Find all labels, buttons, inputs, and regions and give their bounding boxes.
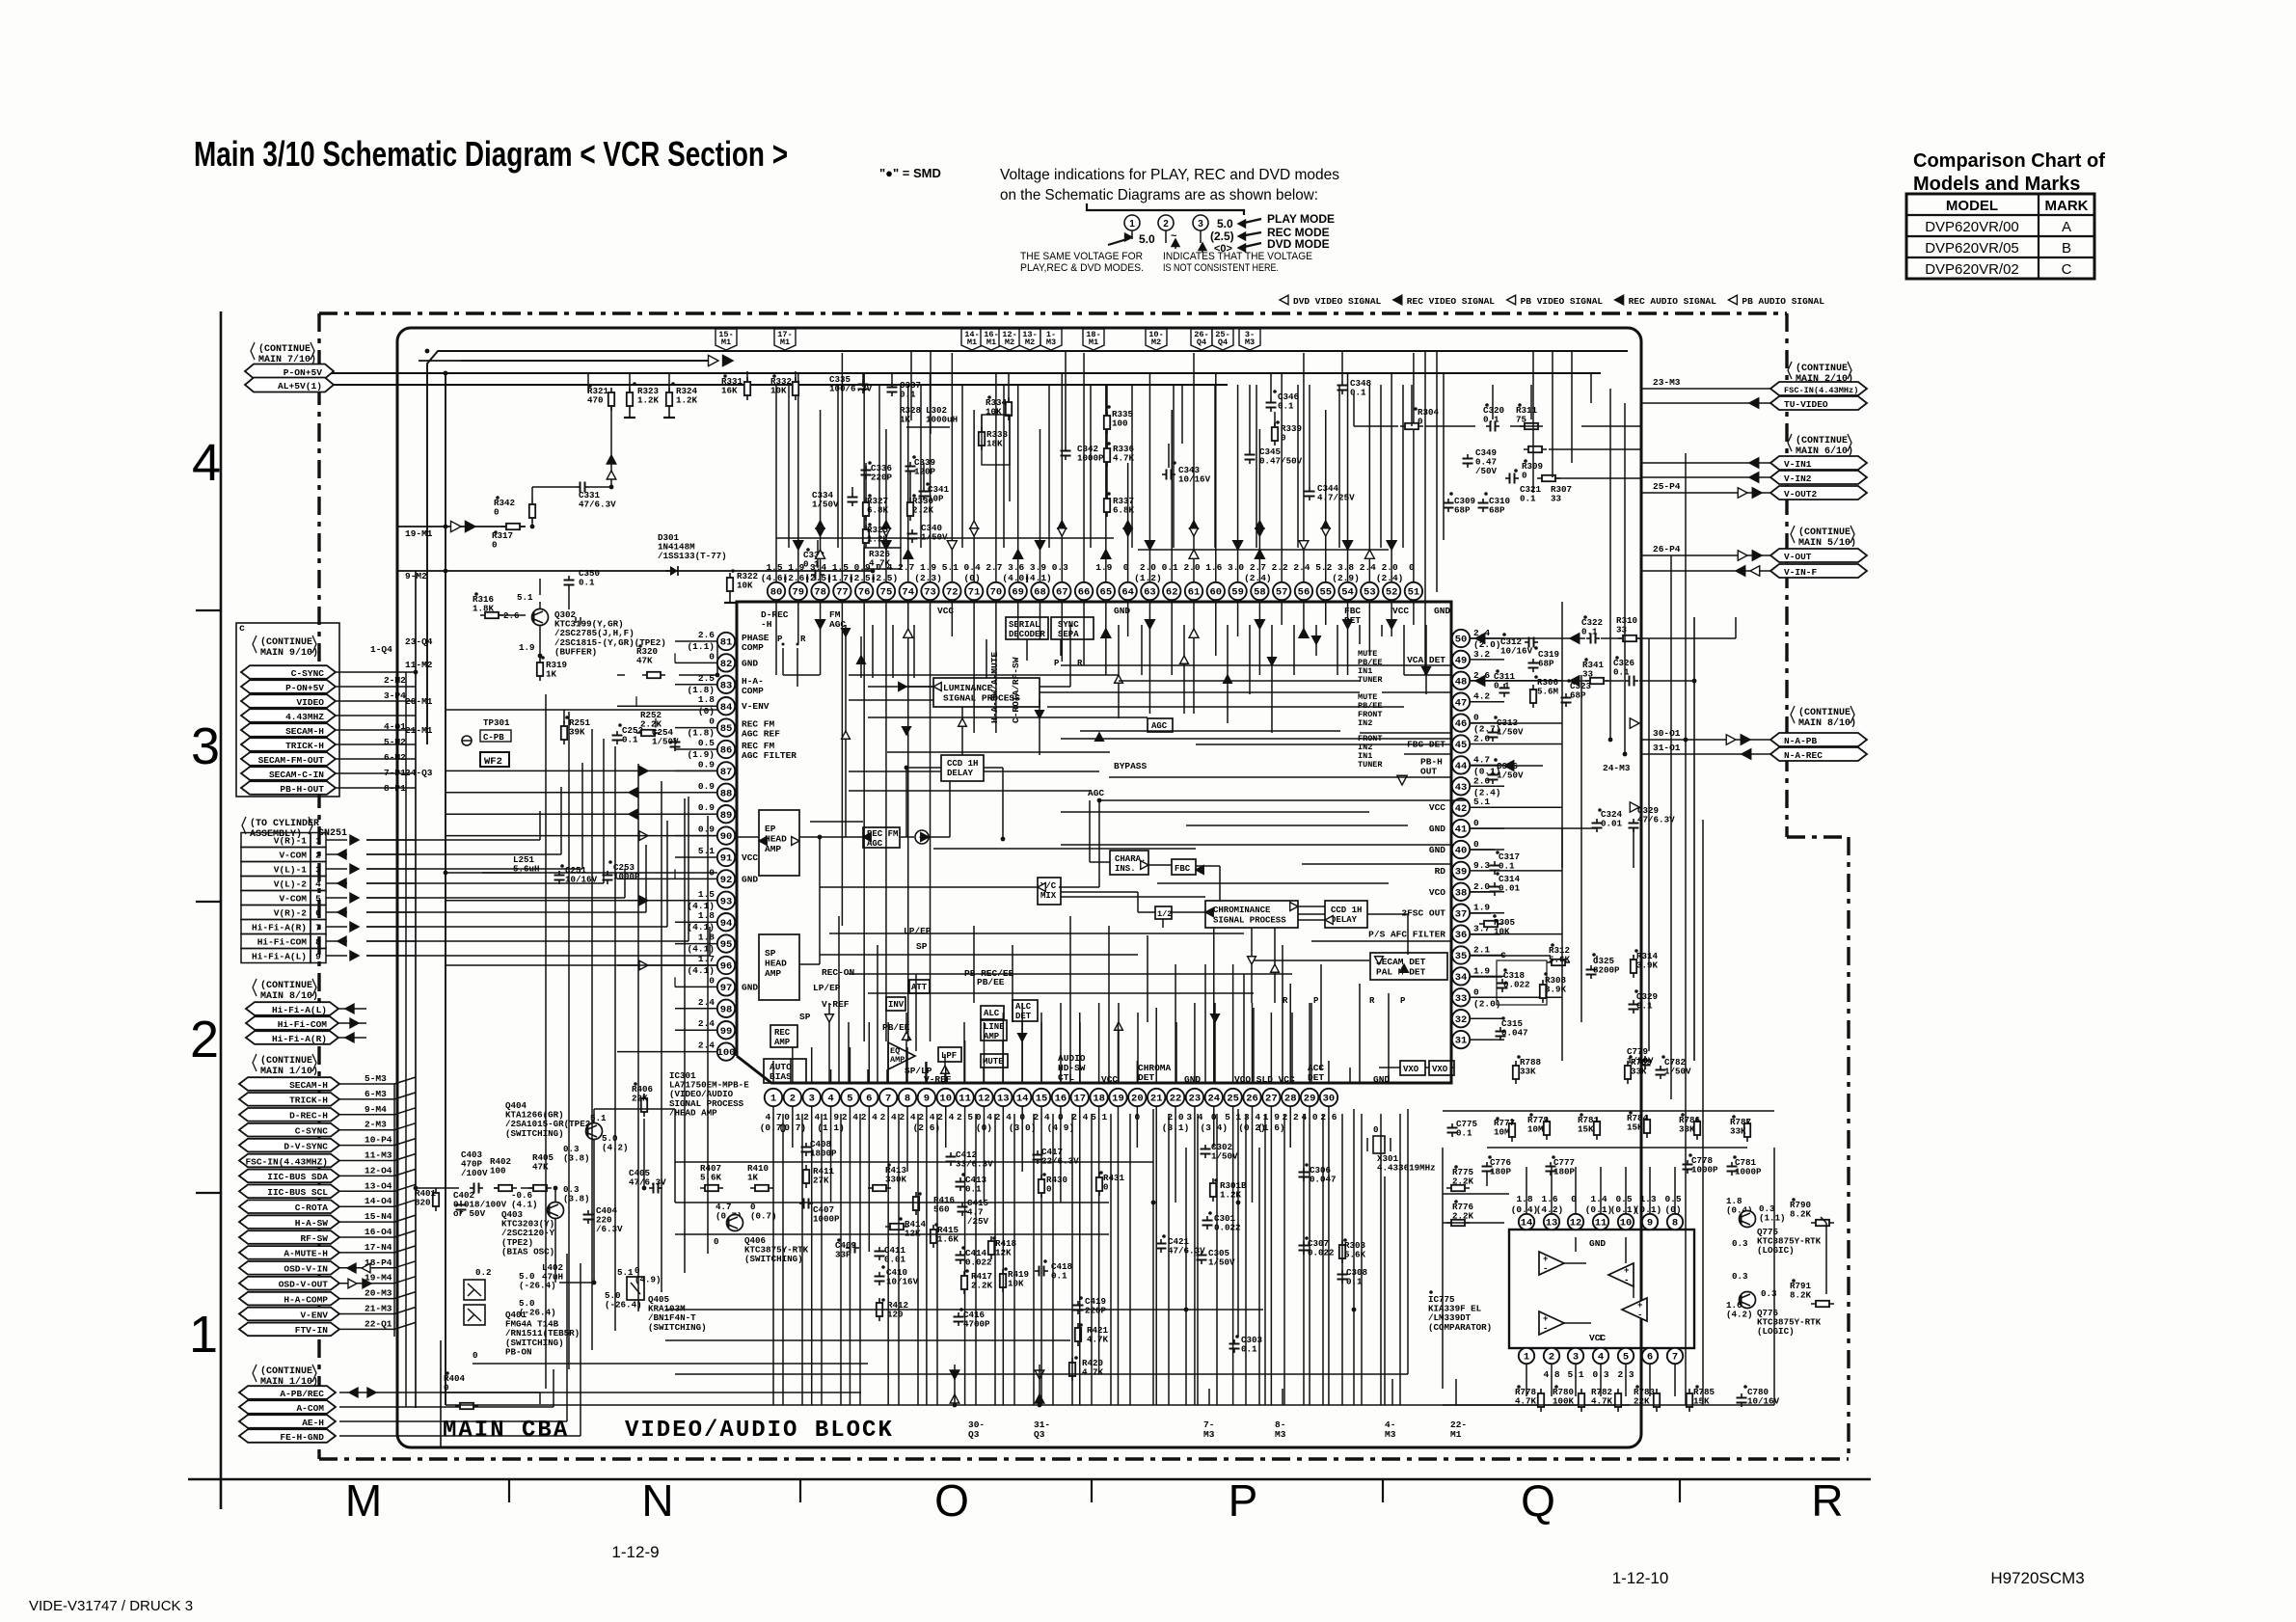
svg-text:V(R)-1: V(R)-1 [274,836,308,847]
IC301 pin 46 [1452,714,1470,731]
ground R324 [668,411,670,418]
svg-text:17-N4: 17-N4 [365,1242,392,1253]
legend arrow dvd [1240,243,1261,248]
arrows above top pin row [794,541,803,550]
resistor R791 [1811,1303,1834,1305]
svg-text:9.3: 9.3 [1473,860,1490,871]
resistor R304 [1400,425,1423,427]
IC301 pin 27 [1262,1089,1280,1106]
IC301 pin 32 [1452,1010,1470,1027]
svg-text:MODEL: MODEL [1946,198,1998,214]
capacitor C778 [1687,1160,1688,1165]
IC301 pin 16 [1052,1089,1069,1106]
capacitor C314 [1494,882,1496,887]
wire R320 to pin81 [617,674,625,676]
resistor R314 [1633,955,1634,978]
capacitor C349 [1467,454,1469,459]
svg-text:MAIN 1/10): MAIN 1/10) [260,1066,318,1077]
svg-text:0: 0 [444,1383,449,1393]
svg-text:0.5: 0.5 [1664,1194,1681,1204]
svg-text:OUT: OUT [1420,766,1437,776]
svg-text:B: B [2062,240,2071,257]
capacitor C251 [558,871,560,876]
svg-text:3: 3 [315,865,321,876]
IC775 pin 3 [1568,1348,1583,1364]
svg-text:2.4: 2.4 [698,997,715,1008]
transistor pack Q401a [464,1280,485,1300]
svg-text:VCC: VCC [742,852,758,863]
wire TRICK-H [339,1098,394,1100]
IC301 pin 87 [717,762,735,779]
capacitor C322 [1586,637,1591,639]
resistor R311 [1520,425,1543,427]
svg-text:16K: 16K [721,386,738,396]
svg-text:41: 41 [1455,825,1468,836]
svg-text:2.4: 2.4 [1360,562,1376,573]
svg-text:4.7K: 4.7K [1082,1367,1104,1378]
svg-text:71: 71 [968,587,981,599]
capacitor C407 [799,1203,804,1204]
capacitor C324 [1596,819,1598,824]
svg-text:0: 0 [473,1350,478,1361]
svg-text:0: 0 [1418,417,1423,427]
svg-text:77: 77 [836,587,849,599]
svg-text:8200P: 8200P [1593,965,1620,976]
block ALC DET [1013,1000,1038,1021]
vertical rails right bottom [1353,1109,1355,1405]
vertical rail A [445,373,446,1405]
connector A-PB/REC [239,1386,336,1399]
svg-text:22: 22 [1170,1094,1182,1105]
svg-text:5.1: 5.1 [1473,797,1490,807]
svg-text:120: 120 [887,1310,904,1320]
capacitor C410 [878,1272,880,1277]
wire Hi-Fi-COM hex [338,1022,366,1024]
svg-text:+: + [1543,1255,1548,1264]
svg-text:100: 100 [717,1047,736,1059]
svg-text:(1.1): (1.1) [1759,1213,1786,1224]
IC775 pin 12 [1568,1214,1583,1230]
svg-text:5.0: 5.0 [1217,217,1233,230]
vertical rail B [415,571,417,1408]
svg-text:4.7K: 4.7K [1113,453,1135,464]
legend circle 2 [1158,215,1174,230]
resistor R777 [1511,1119,1513,1142]
svg-text:3: 3 [809,1094,815,1105]
svg-text:MAIN 8/10): MAIN 8/10) [260,990,318,1002]
svg-text:EP: EP [765,824,776,834]
CN251 row V-COM [241,891,311,906]
svg-text:1.9: 1.9 [920,562,936,573]
svg-text:GND: GND [1184,1074,1201,1085]
IC301 pin 94 [717,913,735,931]
svg-text:Hi-Fi-COM: Hi-Fi-COM [257,937,308,948]
capacitor C329a [1633,819,1634,824]
svg-text:93: 93 [720,896,733,907]
svg-text:85: 85 [720,723,733,735]
svg-text:M1: M1 [986,338,996,347]
svg-text:PB-ON: PB-ON [505,1346,532,1357]
svg-text:VCC: VCC [1429,802,1445,813]
capacitor C415 [961,1203,963,1207]
svg-text:M2: M2 [1151,338,1161,347]
IC775 pin 10 [1618,1214,1634,1230]
svg-text:180P: 180P [1490,1167,1512,1177]
svg-text:3.8: 3.8 [1337,562,1354,573]
block SP HEAD AMP [759,934,799,1000]
signal legend REC AUDIO SIGNAL [1615,295,1624,305]
svg-text:6: 6 [315,908,321,919]
svg-text:1000P: 1000P [1691,1165,1718,1176]
wires rails to EP/SP pins [446,770,617,771]
svg-text:4.7/25V: 4.7/25V [1317,493,1355,503]
IC775 pin 2 [1544,1348,1559,1364]
svg-text:ATT: ATT [911,983,928,992]
svg-text:39: 39 [1455,867,1468,879]
svg-text:c: c [239,624,245,635]
resistor R413 [868,1187,891,1189]
resistor R779 [1546,1117,1548,1140]
svg-text:47: 47 [1455,697,1468,709]
IC301 pin 11 [956,1089,973,1106]
svg-text:+: + [1637,1301,1642,1311]
connector TRICK-H [241,738,336,751]
capacitor C342 [1065,446,1067,451]
svg-text:WF2: WF2 [484,756,502,768]
wire lower horizontal C [675,1373,1408,1375]
legend bracket [1087,203,1244,215]
CN251 row V(R)-2 [241,906,311,920]
legend circle 1 [1124,215,1140,230]
svg-text:FTV-IN: FTV-IN [295,1325,329,1336]
capacitor C412 [950,1152,952,1157]
svg-text:BYPASS: BYPASS [1114,761,1148,771]
svg-text:Hi-Fi-COM: Hi-Fi-COM [278,1019,328,1030]
block EP HEAD AMP [759,810,799,876]
svg-text:5.0: 5.0 [1139,232,1155,246]
svg-text:55: 55 [1319,587,1332,599]
svg-text:0: 0 [1522,471,1527,481]
svg-text:0.1: 0.1 [1483,415,1499,425]
svg-text:0.022: 0.022 [1503,980,1530,990]
transistor Q406 [727,1215,743,1231]
IC775 pin 11 [1593,1214,1608,1230]
resistor R419 [1002,1269,1004,1292]
IC301 pin 25 [1224,1089,1241,1106]
svg-text:GND: GND [1373,1074,1390,1085]
svg-text:VCC: VCC [1589,1333,1606,1343]
svg-text:ALC: ALC [984,1009,1000,1018]
resistor R336 [1106,444,1108,467]
block SECAM DET PAL M DET [1370,953,1447,980]
svg-text:23-M3: 23-M3 [1653,377,1681,388]
svg-text:VCC: VCC [1392,606,1409,616]
resistor R416 [915,1192,917,1215]
resistor R401 [435,1188,437,1211]
svg-text:AMP: AMP [890,1055,905,1065]
svg-text:99: 99 [720,1026,733,1038]
svg-text:(1.2): (1.2) [1134,573,1162,583]
wires top band extra [788,385,790,548]
svg-text:LP/EP: LP/EP [813,983,841,993]
wires left-bottom risers [539,1392,541,1404]
resistor R786 [1696,1117,1698,1140]
wires left riser bus [545,694,547,1389]
block CHROMINANCE SIGNAL PROCESS [1205,901,1298,928]
resistor R312 [1547,961,1570,963]
IC301 pin 49 [1452,651,1470,668]
svg-text:2.0: 2.0 [1473,881,1490,892]
svg-text:FBC: FBC [1175,864,1191,874]
svg-text:SECAM-FM-OUT: SECAM-FM-OUT [258,755,325,766]
svg-text:20-M3: 20-M3 [365,1288,392,1299]
svg-text:37: 37 [1455,908,1468,920]
IC301 pin 15 [1033,1089,1050,1106]
svg-text:RD: RD [1435,866,1446,877]
svg-text:75: 75 [880,587,893,599]
IC301 pin 69 [1009,582,1026,600]
resistor R788 [1515,1061,1517,1084]
connector Hi-Fi-A(L) hex [246,1002,338,1015]
svg-text:4.7K: 4.7K [869,558,891,569]
wire OSD-V-OUT [339,1283,394,1284]
resistor R410 [750,1187,773,1189]
svg-text:DVP620VR/00: DVP620VR/00 [1925,219,2019,235]
arrow pin44 [1504,761,1514,770]
svg-text:44: 44 [1455,761,1468,772]
connector OSD-V-IN [239,1261,339,1275]
svg-text:TUNER: TUNER [1358,760,1383,770]
svg-text:30-O1: 30-O1 [1653,728,1681,739]
svg-text:SYNC: SYNC [1058,620,1079,630]
svg-text:0: 0 [709,975,715,986]
legend circle 3 [1193,215,1208,230]
svg-text:M1: M1 [721,338,731,347]
svg-text:FSC-IN(4.43MHz): FSC-IN(4.43MHz) [1784,386,1858,395]
signal legend REC VIDEO SIGNAL [1393,295,1402,305]
svg-text:VCO: VCO [1429,887,1445,898]
svg-text:13: 13 [1546,1218,1558,1230]
svg-text:1: 1 [315,836,321,847]
capacitor C408 [805,1143,807,1148]
svg-text:5.1: 5.1 [698,846,715,856]
wire stubs left pins up [674,653,676,662]
IC301 pin 62 [1163,582,1180,600]
wire right rail 1748 [1685,453,1687,1405]
IC301 pin 38 [1452,883,1470,901]
svg-text:10: 10 [939,1094,952,1105]
IC301 pin 41 [1452,820,1470,837]
svg-text:10-P4: 10-P4 [365,1135,392,1146]
IC301 pin 65 [1097,582,1115,600]
svg-text:10K: 10K [737,581,753,591]
svg-text:1800P: 1800P [810,1149,837,1159]
capacitor C252 [616,731,618,736]
svg-text:P: P [1400,996,1406,1006]
wire 4.43MHZ [336,715,416,716]
block MUTE [981,1054,1008,1068]
connector tab 12-M2 [999,329,1020,350]
svg-text:(-26.4): (-26.4) [519,1308,556,1318]
svg-text:0.1: 0.1 [1456,1128,1472,1139]
svg-text:68: 68 [1034,587,1046,599]
svg-text:CCD 1H: CCD 1H [1331,906,1362,915]
svg-text:V-ENV: V-ENV [742,701,770,712]
svg-text:2: 2 [1549,1352,1554,1364]
svg-text:1.8: 1.8 [698,933,715,943]
svg-text:LPF: LPF [941,1051,957,1061]
resistor R337 [1106,494,1108,517]
svg-text:N-A-REC: N-A-REC [1784,750,1823,761]
resistor R402 [494,1187,517,1189]
wire FTV-IN [339,1328,394,1330]
svg-text:5-M2: 5-M2 [384,737,406,747]
IC301 pin 4 [822,1089,839,1106]
capacitor C335 [862,380,864,385]
svg-text:0: 0 [1473,713,1479,723]
svg-text:36: 36 [1455,930,1468,941]
rail x421 [405,672,407,1407]
svg-text:1000P: 1000P [1735,1167,1762,1177]
resistor R330 [909,498,911,521]
svg-text:33K: 33K [1679,1124,1695,1135]
svg-text:1/50V: 1/50V [1208,1257,1235,1268]
IC301 pin 82 [717,654,735,671]
IC301 pin 28 [1282,1089,1299,1106]
svg-text:MAIN 8/10): MAIN 8/10) [1798,717,1856,729]
IC301 pin 30 [1320,1089,1337,1106]
svg-text:Hi-Fi-A(R): Hi-Fi-A(R) [252,923,307,933]
svg-text:68P: 68P [1454,505,1471,516]
IC301 pin 39 [1452,862,1470,879]
svg-text:2: 2 [190,1011,219,1068]
svg-text:0.4: 0.4 [964,562,981,573]
legend arrow play [1240,219,1261,224]
svg-text:42: 42 [1455,803,1468,815]
connector C-SYNC [241,665,336,679]
svg-text:P: P [1313,996,1319,1006]
arrows bottom 30/31 [950,1370,959,1379]
svg-text:INS.: INS. [1115,864,1136,874]
capacitor C311 [1503,684,1505,689]
svg-text:8: 8 [905,1094,910,1105]
svg-text:PLAY,REC & DVD MODES.: PLAY,REC & DVD MODES. [1020,262,1144,274]
svg-text:0: 0 [494,507,500,518]
svg-text:SECAM-H: SECAM-H [285,726,324,737]
IC301 pin 95 [717,934,735,952]
capacitor C341 [923,487,925,492]
wire SECAM-H [336,729,416,731]
IC301 pin 36 [1452,925,1470,942]
capacitor C777 [1550,1162,1552,1167]
svg-text:TRICK-H: TRICK-H [285,741,324,751]
transistor Q404 [586,1123,603,1140]
svg-text:2.1: 2.1 [1473,945,1490,956]
capacitor C418 [1035,1270,1040,1272]
connector SECAM-C-IN [241,767,336,780]
capacitor C336 [865,466,867,471]
svg-text:/6.3V: /6.3V [596,1224,623,1234]
svg-text:(LOGIC): (LOGIC) [1757,1245,1795,1256]
svg-text:1.3: 1.3 [1639,1194,1656,1204]
svg-text:VIDEO/AUDIO BLOCK: VIDEO/AUDIO BLOCK [625,1418,894,1444]
op-amp U1d [1539,1311,1564,1335]
svg-text:(4.1): (4.1) [511,1200,538,1210]
svg-text:AGC: AGC [1151,721,1168,731]
svg-text:64: 64 [1121,587,1134,599]
svg-text:-: - [1543,1324,1548,1334]
IC301 interior signal arrows [842,629,851,636]
dash-dot border left [317,313,320,1459]
IC775 pin 6 [1642,1348,1658,1364]
svg-text:0.9: 0.9 [698,759,715,770]
legend not-consistent arrow [1199,243,1206,251]
connector tab 14-M1 [961,329,983,350]
svg-text:(4.2): (4.2) [1726,1310,1753,1320]
svg-text:(CONTINUE: (CONTINUE [260,636,312,648]
wire A-COM [339,1406,554,1408]
IC301 pin 96 [717,957,735,974]
arrows 19-M1 [451,521,462,531]
arrow pin46 [1630,718,1639,728]
wires bottom-left cluster [416,1187,459,1189]
CN251 row Hi-Fi-A(L) [241,949,311,963]
svg-text:GND: GND [742,982,758,992]
svg-text:V-ENV: V-ENV [300,1310,328,1320]
svg-text:R: R [800,635,806,644]
IC301 pin 20 [1128,1089,1146,1106]
capacitor C301 [1206,1216,1208,1221]
dash-dot border right lower [1847,837,1850,1459]
capacitor C308 [1341,1270,1343,1275]
testpoint TP301 [462,736,472,745]
svg-text:A-COM: A-COM [296,1403,324,1414]
transistor Q405 [627,1277,644,1300]
svg-text:TRICK-H: TRICK-H [289,1095,328,1106]
svg-text:33K: 33K [1730,1126,1746,1137]
IC775 pin 13 [1544,1214,1559,1230]
svg-text:11: 11 [959,1094,971,1105]
connector tab 10-M2 [1146,329,1167,350]
svg-text:AGC FILTER: AGC FILTER [742,750,797,761]
svg-text:3: 3 [1573,1352,1579,1364]
svg-text:0.022: 0.022 [1214,1223,1241,1233]
svg-text:1.9: 1.9 [1473,965,1490,976]
svg-text:0: 0 [709,716,715,727]
resistor R324 [668,388,670,411]
svg-text:M3: M3 [1203,1429,1215,1440]
wire D-REC-H [339,1114,394,1116]
svg-text:1.5: 1.5 [832,562,849,573]
wire L251 bus [446,872,717,874]
svg-text:9: 9 [1647,1218,1653,1230]
svg-text:54: 54 [1341,587,1354,599]
svg-text:P-ON+5V: P-ON+5V [285,683,324,693]
IC301 pin 72 [943,582,960,600]
svg-text:6-M3: 6-M3 [365,1089,387,1099]
IC301 pin 88 [717,784,735,801]
svg-text:A-PB/REC: A-PB/REC [280,1389,324,1399]
svg-text:(4.1): (4.1) [687,965,715,976]
group2 box [236,623,339,797]
svg-text:N-A-PB: N-A-PB [1784,736,1818,746]
svg-text:9: 9 [315,952,321,962]
IC301 pin 26 [1243,1089,1260,1106]
svg-text:18: 18 [1093,1094,1105,1105]
wires bottom mids [954,1365,956,1405]
wire right rail 1685 [1624,403,1626,754]
IC301 pin 47 [1452,693,1470,711]
